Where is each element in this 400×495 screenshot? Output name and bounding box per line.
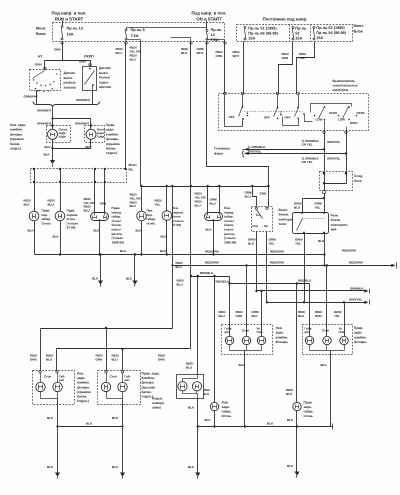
switch contact 1 (OFF) (242, 95, 244, 107)
svg-text:ORN/WHT: ORN/WHT (24, 95, 38, 99)
left backup lamp box (dashed) (47, 126, 71, 143)
lamp: right rear stop (101, 382, 110, 391)
svg-text:РКПП: РКПП (84, 55, 94, 59)
svg-text:Стоп: Стоп (110, 375, 117, 379)
wire RED/GRN fuse 52 to light switch (279, 42, 293, 94)
wire BLK to ground 1 (57, 427, 59, 473)
wire GRN/BLU left cluster turn drop (260, 290, 262, 292)
svg-text:Лев.: Лев. (77, 372, 84, 376)
svg-text:Со: Со (256, 213, 260, 217)
rear ground bus left segment (58, 426, 123, 428)
svg-text:миссии: миссии (99, 85, 111, 89)
svg-text:Монт.: Монт. (129, 163, 138, 167)
wire BLK to ground 2 (122, 427, 124, 473)
svg-text:рит: рит (225, 330, 231, 334)
svg-text:BLK: BLK (160, 249, 167, 253)
light switch box (dashed) (219, 94, 369, 131)
internal feed line fuse 14 to fuse 5 (127, 27, 207, 29)
svg-text:BLK: BLK (188, 405, 195, 409)
switch: Выкл. боков. повторителя (dashed) (252, 207, 273, 232)
svg-text:разреш.: разреш. (64, 81, 77, 85)
wire GRN/BLK from repeater switch Лев to rear left turn (256, 232, 258, 291)
svg-text:⟨1 GRN/BLK: ⟨1 GRN/BLK (248, 145, 266, 149)
svg-text:Пр-ль: Пр-ль (295, 27, 307, 31)
wire to repeater switch terminal Пр (dot at line end) (267, 185, 269, 187)
svg-text:BLK: BLK (318, 239, 325, 243)
svg-text:Выключатель: Выключатель (333, 79, 356, 83)
svg-text:номерн.: номерн. (152, 401, 165, 405)
fuse Пр-ль 5 7.5A (125, 29, 127, 31)
svg-text:BLU: BLU (176, 265, 182, 269)
svg-text:Монт.: Монт. (354, 24, 364, 28)
svg-text:PASS: PASS (329, 111, 337, 115)
svg-text:YEL: YEL (299, 56, 305, 60)
svg-text:YEL: YEL (315, 206, 321, 210)
svg-text:Блок:: Блок: (36, 32, 47, 36)
svg-text:фонарь: фонарь (142, 381, 155, 385)
svg-text:OR YEL: OR YEL (302, 143, 313, 147)
terminal GRN/BLK in junction block (323, 172, 325, 174)
svg-text:RED/GRN: RED/GRN (205, 261, 219, 265)
lamp: Лев. перед. габар. огонь / боков. повторитель (dual) (205, 213, 223, 221)
wire GRN/YEL from repeater switch Пр to rear right turn (266, 232, 268, 303)
svg-text:Головные: Головные (214, 147, 230, 151)
ground G left stop/tail (55, 473, 60, 477)
wire RED/BLU line C (191, 276, 230, 278)
wire ORN/WHT to backup lamp junction (52, 108, 54, 119)
svg-text:боков.: боков. (279, 213, 290, 217)
wire RED/YEL OR RED/BLU fuse 5 branch to left front lamps (140, 42, 142, 187)
svg-text:GRN: GRN (282, 56, 289, 60)
svg-text:BLK: BLK (239, 363, 246, 367)
svg-text:GRN/YEL: GRN/YEL (327, 140, 341, 144)
svg-text:задн.: задн. (354, 331, 362, 335)
svg-text:задн.: задн. (222, 405, 230, 409)
wire ORN from RUN/START feed to fuse 13 (62, 21, 64, 26)
svg-text:BLK: BLK (112, 416, 119, 420)
svg-text:ORN/WHT: ORN/WHT (37, 122, 51, 126)
svg-text:GRN/YEL: GRN/YEL (349, 298, 363, 302)
svg-text:комбин.: комбин. (77, 381, 90, 385)
svg-text:RED/GRN: RED/GRN (205, 250, 219, 254)
wire RED/BLU right rear position lamp drop (296, 282, 298, 284)
svg-text:BLU: BLU (186, 366, 192, 370)
switch contact 2 (OFF) (277, 95, 279, 108)
svg-text:Стоп: Стоп (322, 328, 329, 332)
rear ground bus right segment (198, 426, 333, 428)
svg-text:GRN: GRN (158, 358, 165, 362)
wires inside license box (197, 375, 199, 379)
front ground bus BLK (35, 254, 325, 256)
wire lamp5 feed (166, 187, 168, 212)
svg-text:BLK: BLK (252, 314, 259, 318)
lamp: right rear стоп (323, 336, 331, 344)
svg-text:BLU: BLU (203, 392, 209, 396)
svg-text:задн.: задн. (77, 376, 85, 380)
svg-text:BLU: BLU (298, 314, 304, 318)
right rear combination lamp cluster (dashed) (303, 325, 353, 355)
svg-text:задн.: задн. (106, 128, 114, 132)
wire BLK left tail lamp to bus (214, 411, 216, 427)
svg-text:повторите-: повторите- (331, 223, 349, 227)
svg-text:YEL: YEL (295, 242, 301, 246)
wire GRN/YEL right cluster turn drop (343, 301, 345, 303)
wire RED/BLU line D (230, 283, 310, 285)
fuse box right (dashed) (237, 25, 353, 42)
switch contact 3 (OFF) (298, 95, 300, 108)
svg-text:RED/BLU: RED/BLU (298, 279, 311, 283)
fuse Пр-ль 14 7.5A (206, 30, 208, 32)
wire to repeater switch terminal Лев (253, 187, 257, 207)
svg-text:(крышка: (крышка (10, 137, 24, 141)
wires inside right cluster to BLK (309, 345, 311, 351)
svg-text:выкл.: выкл. (99, 71, 109, 75)
svg-text:отдел.): отдел.) (10, 147, 21, 151)
brace joining ORN/WHT wires (33, 102, 100, 108)
svg-text:Монт.: Монт. (36, 27, 46, 31)
svg-text:(крышка: (крышка (106, 142, 120, 146)
svg-text:Датчик-: Датчик- (99, 66, 111, 70)
wire RED/GRN drop to line B and stop feed (172, 187, 174, 329)
svg-text:BLU: BLU (112, 358, 118, 362)
svg-text:рит: рит (59, 378, 65, 382)
svg-text:15A: 15A (316, 36, 323, 40)
svg-text:GRN/YEL: GRN/YEL (248, 150, 262, 154)
svg-text:фары: фары (214, 152, 224, 156)
svg-text:52: 52 (295, 32, 299, 36)
svg-text:фонарь: фонарь (10, 132, 23, 136)
left rear combination lamp cluster (dashed) (222, 325, 273, 355)
svg-text:Пр: Пр (264, 224, 268, 228)
junction block Соед. блок (dashed) (320, 172, 353, 191)
svg-text:габар.: габар. (222, 410, 232, 414)
svg-text:рит: рит (125, 378, 131, 382)
wires inside junction block (346, 175, 348, 184)
svg-text:комбин.: комбин. (106, 132, 119, 136)
svg-text:транс-: транс- (99, 80, 109, 84)
svg-text:Прав.: Прав. (354, 326, 363, 330)
wire RED/GRN right cluster stop drop (326, 264, 328, 266)
svg-text:Пр-ль: Пр-ль (211, 28, 223, 32)
svg-text:Комбин.: Комбин. (142, 376, 155, 380)
lamp: left rear указатель поворота (257, 336, 265, 344)
lamp: Лев. пер. габар. огонь (137, 211, 147, 221)
svg-text:Выкл.: Выкл. (279, 208, 289, 212)
wire RED/GRN left cluster stop drop (246, 266, 248, 337)
svg-text:Реле: Реле (331, 214, 339, 218)
wire BLK relay to bus junction (324, 234, 326, 266)
svg-text:Прав.: Прав. (106, 123, 115, 127)
svg-text:BLU: BLU (195, 204, 201, 208)
svg-text:BLU: BLU (84, 208, 90, 212)
mechanical link (dashed) in light switch (245, 111, 303, 113)
fuse Пр-ль 13 10A (61, 26, 63, 28)
svg-text:BLK: BLK (28, 229, 35, 233)
wire ORN/WHT from AT switch (36, 91, 38, 105)
svg-text:Хода: Хода (59, 134, 67, 138)
svg-text:OR YEL: OR YEL (302, 160, 313, 164)
wire BLK to ground 4 (296, 427, 298, 472)
wire RED/BLU to left cluster tail lamp (229, 284, 231, 337)
svg-text:BLU: BLU (286, 392, 292, 396)
wire RED/GRN stop feed line (41, 328, 173, 330)
svg-text:LOW: LOW (316, 118, 323, 122)
wire RED/BLU fuse 14 branch down to tail feed (190, 42, 192, 349)
svg-text:комбин.: комбин. (10, 128, 23, 132)
switch: starter enable (AT) dashed box (30, 70, 61, 91)
svg-text:RED/GRN: RED/GRN (270, 249, 284, 253)
wire RED/BLU to left rear position lamp (214, 277, 216, 403)
wire GRN/YEL relay to turn line (304, 234, 306, 303)
wire BLK right tail lamp to bus (296, 411, 298, 427)
ground G right tail (294, 472, 299, 476)
svg-text:Пов.: Пов. (257, 330, 264, 334)
svg-text:Лев. задн.: Лев. задн. (10, 123, 26, 127)
svg-text:BLK: BLK (205, 418, 212, 422)
svg-text:BLU: BLU (116, 51, 122, 55)
svg-text:BLU: BLU (48, 203, 54, 207)
svg-text:Постоянно под напр.: Постоянно под напр. (263, 17, 308, 22)
svg-text:RED/GRN: RED/GRN (349, 260, 363, 264)
svg-text:RED/BLU: RED/BLU (216, 279, 229, 283)
svg-text:GRN/BLK: GRN/BLK (350, 286, 364, 290)
svg-text:теля: теля (279, 222, 286, 226)
svg-text:BLU: BLU (181, 51, 187, 55)
svg-text:BLK: BLK (287, 464, 294, 468)
svg-text:огонь: огонь (304, 414, 313, 418)
svg-text:BLK: BLK (321, 363, 328, 367)
lamp: license plate left (178, 382, 187, 391)
svg-text:BLU: BLU (219, 314, 225, 318)
wire ORN fuse 13 to AT/РКПП switches (62, 42, 64, 61)
lamp: Прав. парков. огонь (55, 211, 65, 221)
svg-text:фонарь: фонарь (354, 340, 367, 344)
fuse box Монт. блок (dashed, single long box) (53, 23, 225, 42)
wires to right dual lamp (94, 169, 96, 213)
svg-text:отдел.): отдел.) (106, 151, 117, 155)
wire BLK license to bus (197, 399, 199, 427)
svg-text:BLK: BLK (188, 465, 195, 469)
wire GRN/WHT fuse 14 to repeater switch (route) (207, 42, 269, 207)
svg-text:огонь: огонь (147, 221, 156, 225)
svg-text:BLK: BLK (206, 228, 213, 232)
lamp: left rear tail (53, 382, 62, 391)
svg-text:GRN/YEL: GRN/YEL (327, 156, 341, 160)
wire RED/BLU fuse 5 to Монт. блок strip (125, 42, 127, 169)
svg-text:BLK: BLK (126, 277, 133, 281)
wire to right parking lamp (60, 169, 62, 212)
svg-text:запуска: запуска (64, 85, 77, 89)
terminal GRN/YEL in junction block (345, 172, 347, 174)
svg-text:ORN: ORN (216, 54, 223, 58)
svg-text:Прав.: Прав. (304, 401, 313, 405)
svg-text:Хода: Хода (97, 134, 105, 138)
svg-text:GRN: GRN (236, 314, 243, 318)
lamp: left backup light (48, 129, 58, 139)
svg-text:YEL: YEL (155, 203, 161, 207)
wire RED/WHT fuse 51 to light switch (243, 42, 245, 94)
svg-text:фонарь: фонарь (106, 137, 119, 141)
svg-text:RUN и START: RUN и START (55, 16, 84, 21)
lamp: right rear указатель поворота (340, 336, 348, 344)
svg-text:Пов.: Пов. (339, 330, 346, 334)
svg-text:YEL: YEL (269, 242, 275, 246)
left stop/tail lamp box (dashed) (33, 371, 75, 405)
Монт. блок strip terminals (124, 168, 126, 170)
wires inside left box join to BLK (40, 392, 42, 399)
lamp: right backup light (86, 129, 96, 139)
svg-text:Отдел.): Отдел.) (77, 399, 89, 403)
svg-text:BLK: BLK (92, 277, 99, 281)
svg-text:15A: 15A (295, 37, 302, 41)
wire RED/GRN line B (173, 265, 393, 267)
wires inside right box join to BLK (106, 392, 108, 399)
svg-text:Огонь: Огонь (42, 221, 51, 225)
wire RED/BLU tail feed line (57, 348, 191, 350)
svg-text:фонарь: фонарь (77, 385, 90, 389)
svg-text:LOW: LOW (338, 118, 345, 122)
svg-text:BLK: BLK (53, 235, 60, 239)
ground G license (195, 473, 200, 477)
svg-text:BLK: BLK (44, 153, 51, 157)
svg-text:блок: блок (354, 179, 362, 183)
svg-text:(крышка: (крышка (142, 385, 156, 389)
svg-text:WHT: WHT (233, 54, 240, 58)
svg-text:GRN: GRN (315, 314, 322, 318)
svg-text:OFF: OFF (264, 115, 270, 119)
svg-text:рит: рит (305, 330, 311, 334)
svg-text:ORN: ORN (54, 48, 61, 52)
wires to left dual lamp (207, 187, 209, 213)
right stop/tail lamp box (dashed) (98, 371, 141, 405)
svg-text:Датчик-: Датчик- (64, 71, 76, 75)
svg-text:BLK: BLK (86, 422, 93, 426)
ground stub 1 on bus (99, 253, 101, 255)
svg-text:Лев: Лев (252, 224, 258, 228)
wire RED/BLU to right cluster tail lamp (309, 284, 311, 337)
svg-text:7.5A: 7.5A (131, 34, 139, 38)
svg-text:1995-96): 1995-96) (112, 240, 124, 244)
svg-text:Пр-ль 66 (96-99): Пр-ль 66 (96-99) (248, 32, 278, 36)
svg-text:багаж.: багаж. (142, 390, 152, 394)
svg-text:GRN: GRN (30, 358, 37, 362)
svg-text:15A: 15A (248, 37, 255, 41)
svg-text:Пр-ль 62 (1995): Пр-ль 62 (1995) (316, 26, 345, 30)
svg-text:багаж.: багаж. (10, 142, 20, 146)
lamp: Прав. задн. габар. огонь (293, 402, 301, 410)
wire branch to relay terminals (303, 198, 325, 200)
ground G backup lamps (50, 160, 55, 164)
lamp: license plate right (192, 382, 201, 391)
svg-text:ORN/WHT: ORN/WHT (37, 109, 51, 113)
svg-text:ON и START: ON и START (196, 16, 222, 21)
internal link U from switch 3 (283, 117, 299, 126)
svg-text:10A: 10A (67, 32, 74, 36)
svg-text:BLK: BLK (112, 465, 119, 469)
wire RED/BLU license feed (197, 275, 199, 277)
svg-text:Лев.: Лев. (222, 401, 229, 405)
svg-text:Лев.: Лев. (276, 326, 283, 330)
svg-text:лей: лей (331, 228, 337, 232)
svg-text:GRN: GRN (96, 358, 103, 362)
lamp: Прав. пер. габар. Огонь (29, 211, 39, 221)
svg-text:BLU: BLU (245, 195, 251, 199)
fuse Пр-ль 52 15A (292, 27, 294, 29)
svg-text:Соед.: Соед. (354, 174, 363, 178)
fuse Пр-ль 51 (1995) / Пр-ль 66 (96-99) 15A (244, 27, 246, 29)
svg-text:PASS: PASS (357, 111, 365, 115)
svg-text:ORN: ORN (35, 63, 42, 67)
svg-text:бл.: бл. (129, 168, 134, 172)
wire ON/START feed to fuse 14 (206, 21, 208, 30)
lamp: Лев. задн. габар. Огонь (210, 402, 218, 410)
svg-text:Пр-ль 5: Пр-ль 5 (131, 28, 145, 32)
wire tap to light switch entry 1 (224, 42, 226, 94)
svg-text:Пр-ль 54 (96-99): Пр-ль 54 (96-99) (316, 31, 346, 35)
svg-text:выкл.: выкл. (64, 76, 74, 80)
svg-text:BLK: BLK (120, 249, 127, 253)
svg-text:Подсв.: Подсв. (152, 397, 163, 401)
switch entry bumps on light switch box (224, 92, 227, 95)
wire GRN/YEL to headlights (arrow) (245, 153, 347, 155)
svg-text:BLK: BLK (287, 418, 294, 422)
svg-text:RED/BLU: RED/BLU (200, 271, 213, 275)
svg-text:комбин.: комбин. (276, 335, 289, 339)
wires inside left cluster to BLK (229, 345, 231, 351)
switch: transmission position (РКПП) solid box (83, 67, 97, 91)
wire lamp4 feed (141, 187, 143, 212)
wire GRN/BLK from light switch down (324, 120, 326, 131)
svg-text:задн.: задн. (276, 331, 284, 335)
svg-text:RED/GRN: RED/GRN (270, 261, 284, 265)
lamp: left rear габарит (225, 336, 233, 344)
svg-text:ORN/WHT: ORN/WHT (76, 98, 90, 102)
svg-text:Под напр. в пол.: Под напр. в пол. (191, 11, 226, 16)
svg-text:BLU: BLU (210, 202, 216, 206)
svg-text:ORN: ORN (79, 60, 86, 64)
svg-text:BLK: BLK (47, 465, 54, 469)
relay: Реле боков. повторителей (293, 213, 329, 234)
svg-text:BLU: BLU (177, 283, 183, 287)
wire RED/BLU step down to line D (229, 277, 231, 284)
svg-text:GRN: GRN (260, 192, 267, 196)
svg-text:GRN: GRN (100, 202, 107, 206)
Монт. блок connector strip (dashed) (31, 169, 127, 183)
connector bumps at fuse box exits (61, 42, 63, 44)
svg-text:ORN/WHT: ORN/WHT (75, 122, 89, 126)
lamp: right rear габарит (305, 336, 313, 344)
fuse Пр-ль 62 (1995) / Пр-ль 54 (96-99) 15A (313, 27, 315, 29)
wire GRN/YEL from light switch down (346, 127, 348, 131)
svg-text:BLK: BLK (24, 203, 31, 207)
switch: dimmer LOW/HIGH arm 1 (324, 106, 326, 108)
right backup lamp box (dashed) (85, 126, 105, 143)
svg-text:WHT: WHT (197, 51, 204, 55)
lamp: right rear tail (118, 382, 127, 391)
svg-text:габар.: габар. (304, 410, 314, 414)
lamp: left rear стоп (242, 336, 250, 344)
ground stub 2 on bus (134, 253, 136, 255)
svg-text:Под напр. в пол.: Под напр. в пол. (51, 11, 86, 16)
ground G right stop/tail (120, 473, 125, 477)
switch: dimmer LOW/HIGH arm 2 (348, 106, 350, 108)
svg-text:Огонь: Огонь (222, 414, 232, 418)
svg-text:1995-96): 1995-96) (224, 240, 236, 244)
svg-text:97-99): 97-99) (172, 223, 181, 227)
svg-text:Прав. задн.: Прав. задн. (142, 372, 160, 376)
svg-text:HIGH: HIGH (350, 121, 358, 125)
svg-text:BLU: BLU (130, 204, 136, 208)
